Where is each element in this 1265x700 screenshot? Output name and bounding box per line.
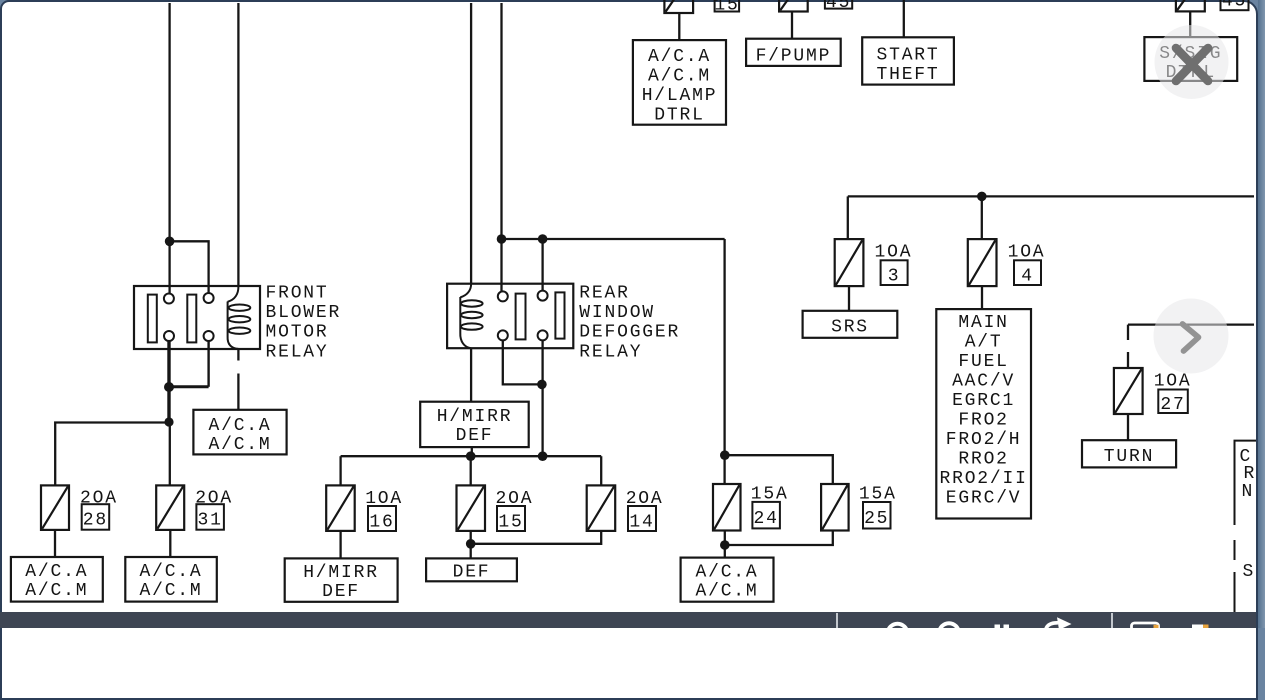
toolbar zoom-in icon bbox=[939, 623, 959, 643]
relay K2 pin 3 bbox=[538, 291, 548, 301]
fuse 16 bbox=[326, 485, 355, 531]
wire branch to front relay pin 3 bbox=[170, 241, 209, 293]
svg-text:A/C.A: A/C.A bbox=[208, 416, 271, 436]
box TURN bbox=[1082, 440, 1176, 467]
fuse 3 bbox=[835, 239, 864, 286]
box H/MIRR DEF bottom bbox=[285, 558, 398, 601]
svg-text:DEFOGGER: DEFOGGER bbox=[579, 323, 680, 343]
toolbar doc icon bbox=[1192, 625, 1203, 629]
box MAIN circuits bbox=[936, 309, 1031, 518]
wire bus to fuse 15 bbox=[470, 456, 472, 485]
box A/C.A A/C.M bottom right bbox=[681, 558, 774, 602]
relay K1 pin 1 bbox=[164, 294, 174, 304]
fuse 16 number box bbox=[368, 506, 396, 531]
wire horizontal bus to fuses 24/25 bbox=[502, 238, 725, 240]
wire down to fuse 31 bbox=[169, 423, 171, 486]
svg-text:DEF: DEF bbox=[456, 426, 494, 446]
relay K2 contact bar 1 bbox=[516, 294, 526, 340]
relay K2 coil bbox=[460, 284, 482, 349]
wire horizontal bus above fuses 16/15/14 bbox=[341, 455, 602, 457]
bottom toolbar bbox=[0, 612, 1256, 628]
wire fuse 27 to TURN bbox=[1127, 414, 1129, 440]
fuse 25 bbox=[821, 484, 849, 531]
node F junction bbox=[164, 417, 173, 426]
svg-text:25: 25 bbox=[864, 509, 889, 529]
wire rear coil down to H/MIRR DEF bbox=[470, 348, 472, 402]
fuse 31 number box bbox=[196, 504, 224, 530]
node I junction bbox=[538, 451, 548, 461]
fuse 3 number box bbox=[881, 260, 908, 285]
svg-text:A/C.A: A/C.A bbox=[648, 47, 711, 67]
wire top fuse B lead bbox=[791, 12, 793, 39]
wire below fuse 14 joining junction bbox=[471, 531, 602, 544]
wire bus to fuse 14 bbox=[600, 456, 602, 485]
node B junction bbox=[497, 234, 507, 244]
svg-text:A/C.A: A/C.A bbox=[695, 562, 758, 582]
fuse B number box 45 bbox=[825, 0, 852, 9]
box SRS bbox=[803, 311, 898, 338]
relay K2 pin 4 bbox=[538, 330, 548, 340]
svg-text:28: 28 bbox=[83, 511, 108, 531]
node E junction bbox=[164, 382, 174, 392]
svg-text:RRO2: RRO2 bbox=[958, 450, 1008, 470]
relay K2 pin 2 bbox=[498, 330, 508, 340]
svg-text:H/MIRR: H/MIRR bbox=[437, 407, 513, 427]
svg-text:START: START bbox=[876, 46, 939, 66]
node L junction bbox=[720, 540, 730, 550]
svg-text:45: 45 bbox=[1222, 0, 1247, 12]
fuse C cut at top bbox=[1176, 0, 1205, 11]
svg-text:4: 4 bbox=[1021, 266, 1034, 286]
wire top fuse A lead bbox=[678, 13, 680, 40]
box H/MIRR DEF middle bbox=[420, 402, 529, 447]
box A/C.A A/C.M bottom left 1 bbox=[11, 557, 103, 602]
wire branch over fuse 25 bbox=[725, 455, 833, 483]
box DEF bbox=[426, 558, 517, 581]
toolbar pause icon bbox=[995, 625, 1001, 633]
svg-text:WINDOW: WINDOW bbox=[579, 303, 655, 323]
svg-text:3: 3 bbox=[888, 266, 901, 286]
relay K1 pin 3 bbox=[204, 293, 214, 303]
svg-text:RRO2/II: RRO2/II bbox=[939, 469, 1027, 489]
fuse 15 bbox=[457, 485, 486, 531]
svg-text:BLOWER: BLOWER bbox=[266, 303, 342, 323]
fuse B cut at top bbox=[779, 0, 808, 12]
svg-text:EGRC1: EGRC1 bbox=[952, 391, 1015, 411]
relay K1 front blower motor relay body bbox=[134, 286, 260, 349]
relay K1 contact bar 2 bbox=[187, 295, 196, 343]
svg-text:A/C.A: A/C.A bbox=[139, 562, 202, 582]
svg-text:45: 45 bbox=[826, 0, 851, 13]
fuse A cut at top bbox=[664, 0, 693, 13]
svg-text:16: 16 bbox=[369, 512, 394, 532]
toolbar arrow icon bbox=[1046, 623, 1058, 629]
svg-text:H/MIRR: H/MIRR bbox=[303, 563, 379, 583]
fuse 24 bbox=[713, 484, 741, 531]
svg-text:27: 27 bbox=[1160, 395, 1185, 415]
next page chevron bbox=[1183, 324, 1199, 351]
svg-text:MAIN: MAIN bbox=[958, 313, 1008, 333]
svg-text:15: 15 bbox=[498, 512, 523, 532]
svg-text:EGRC/V: EGRC/V bbox=[946, 488, 1022, 508]
svg-text:DEF: DEF bbox=[453, 562, 491, 582]
relay K1 label FRONT BLOWER MOTOR RELAY bbox=[266, 283, 342, 362]
wire top fuse C lead bbox=[1189, 11, 1191, 37]
svg-text:MOTOR: MOTOR bbox=[266, 323, 329, 343]
node A junction bbox=[165, 237, 175, 247]
svg-text:THEFT: THEFT bbox=[876, 65, 939, 85]
fuse 14 number box bbox=[628, 506, 656, 531]
box S/SIG DTRL bbox=[1144, 37, 1237, 81]
wire bus to fuse 4 bbox=[981, 196, 983, 239]
svg-text:A/C.M: A/C.M bbox=[139, 581, 202, 601]
box A/C.A A/C.M under coil bbox=[193, 410, 286, 455]
svg-text:F/PUMP: F/PUMP bbox=[756, 46, 832, 66]
svg-text:H/LAMP: H/LAMP bbox=[642, 86, 718, 106]
wire H/MIRR DEF box to bus bbox=[471, 447, 473, 456]
svg-text:A/C.M: A/C.M bbox=[648, 67, 711, 87]
wire to rear relay pin 3 bbox=[541, 239, 543, 291]
fuse 24 number box bbox=[752, 502, 780, 529]
wire power bus to right edge bbox=[848, 195, 1254, 197]
fuse 14 bbox=[587, 485, 616, 531]
svg-text:S: S bbox=[1243, 562, 1256, 582]
svg-text:RELAY: RELAY bbox=[266, 342, 329, 362]
svg-text:RELAY: RELAY bbox=[579, 342, 642, 362]
svg-text:FRONT: FRONT bbox=[266, 283, 329, 303]
wire rear relay pin4 down to bus bbox=[541, 340, 543, 456]
close button bbox=[1155, 25, 1229, 99]
fuse 4 number box bbox=[1014, 260, 1041, 285]
close button X bbox=[1176, 48, 1208, 81]
fuse 27 number box bbox=[1158, 390, 1188, 414]
box START THEFT bbox=[862, 37, 954, 84]
wire top to START THEFT bbox=[903, 0, 905, 37]
svg-text:DEF: DEF bbox=[322, 582, 360, 602]
relay K1 contact bar 1 bbox=[148, 295, 157, 343]
svg-text:A/C.A: A/C.A bbox=[25, 562, 88, 582]
svg-text:R: R bbox=[1244, 464, 1257, 484]
wire below fuse 25 joining junction bbox=[725, 530, 833, 545]
svg-text:2OA: 2OA bbox=[80, 488, 118, 508]
toolbar screen icon bbox=[1132, 623, 1159, 635]
node J junction bbox=[466, 539, 476, 549]
wire from top to rear relay coil bbox=[470, 3, 472, 285]
svg-text:TURN: TURN bbox=[1104, 447, 1154, 467]
svg-text:2OA: 2OA bbox=[195, 488, 233, 508]
fuse C number box 11 bbox=[1221, 0, 1249, 10]
relay K2 pin 1 bbox=[498, 291, 508, 301]
node C junction bbox=[538, 234, 548, 244]
svg-text:SRS: SRS bbox=[831, 318, 869, 338]
wire pin4 vertical bbox=[207, 341, 209, 387]
svg-text:REAR: REAR bbox=[579, 283, 629, 303]
node K junction bbox=[720, 450, 730, 460]
wire bus to fuse 16 bbox=[339, 456, 341, 485]
fuse 25 number box bbox=[863, 502, 891, 529]
fuse 4 bbox=[968, 239, 997, 286]
fuse 31 bbox=[156, 485, 184, 530]
relay K1 pin 4 bbox=[204, 331, 214, 341]
wire branch pin4 (thick) bbox=[169, 385, 209, 388]
wire turn bus to right edge bbox=[1128, 323, 1254, 325]
svg-text:24: 24 bbox=[753, 509, 778, 529]
box F/PUMP bbox=[746, 39, 841, 66]
wire left to fuse 28 bbox=[55, 423, 169, 486]
box A/C.A A/C.M bottom left 2 bbox=[125, 557, 217, 602]
svg-text:FRO2/H: FRO2/H bbox=[946, 430, 1022, 450]
next page sliver bbox=[1234, 441, 1257, 612]
wire below fuse 28 bbox=[54, 530, 56, 557]
relay K2 label REAR WINDOW DEFOGGER RELAY bbox=[579, 283, 680, 362]
wire from top to front relay coil bbox=[237, 3, 239, 287]
next page button bbox=[1154, 299, 1229, 374]
svg-text:FUEL: FUEL bbox=[958, 352, 1008, 372]
fuse A number box 15 bbox=[715, 0, 740, 12]
next page sliver text bbox=[1240, 447, 1257, 582]
toolbar separator bbox=[836, 613, 838, 628]
relay K1 coil bbox=[228, 286, 251, 349]
svg-text:14: 14 bbox=[629, 512, 654, 532]
svg-text:AAC/V: AAC/V bbox=[952, 372, 1015, 392]
wire below fuse 16 bbox=[339, 531, 341, 559]
wire down right to junction above fuse 24 bbox=[723, 239, 725, 484]
node G junction bbox=[537, 380, 547, 390]
wire below fuse 24 to A/C box bbox=[724, 530, 726, 557]
wire fuse 3 to SRS bbox=[848, 286, 850, 311]
svg-text:DTRL: DTRL bbox=[654, 105, 704, 125]
fuse 28 bbox=[41, 485, 69, 530]
wire front coil to A/C box bbox=[237, 349, 239, 410]
wire front relay pin2 down (thick) bbox=[167, 341, 170, 423]
wire down to fuse 27 bbox=[1127, 325, 1129, 368]
fuse 28 number box bbox=[82, 504, 110, 530]
wire from top to rear relay pin 1 bbox=[500, 3, 502, 291]
wire below fuse 31 bbox=[169, 530, 171, 557]
svg-text:31: 31 bbox=[197, 511, 222, 531]
fuse 15 number box bbox=[497, 506, 525, 531]
wire below fuse 15 to DEF bbox=[470, 531, 472, 559]
wire rear relay pin2 to junction bbox=[503, 340, 542, 384]
fuse 27 bbox=[1114, 368, 1143, 414]
box A/C.A A/C.M H/LAMP DTRL top bbox=[633, 40, 726, 125]
svg-text:A/T: A/T bbox=[965, 333, 1003, 353]
relay K2 rear window defogger relay body bbox=[447, 284, 573, 349]
svg-text:15: 15 bbox=[714, 0, 739, 16]
svg-text:A/C.M: A/C.M bbox=[25, 581, 88, 601]
svg-text:A/C.M: A/C.M bbox=[695, 581, 758, 601]
wire fuse 4 to MAIN box bbox=[981, 286, 983, 309]
toolbar zoom-out icon bbox=[888, 624, 908, 644]
svg-text:N: N bbox=[1242, 482, 1255, 502]
node D junction bbox=[977, 192, 987, 202]
wire from top to front relay pin 1 bbox=[168, 3, 170, 293]
svg-text:FRO2: FRO2 bbox=[958, 411, 1008, 431]
node H junction bbox=[466, 451, 476, 461]
svg-text:A/C.M: A/C.M bbox=[208, 435, 271, 455]
relay K1 pin 2 bbox=[164, 331, 174, 341]
relay K2 contact bar 2 bbox=[555, 292, 564, 338]
wire bus to fuse 3 bbox=[847, 196, 849, 239]
